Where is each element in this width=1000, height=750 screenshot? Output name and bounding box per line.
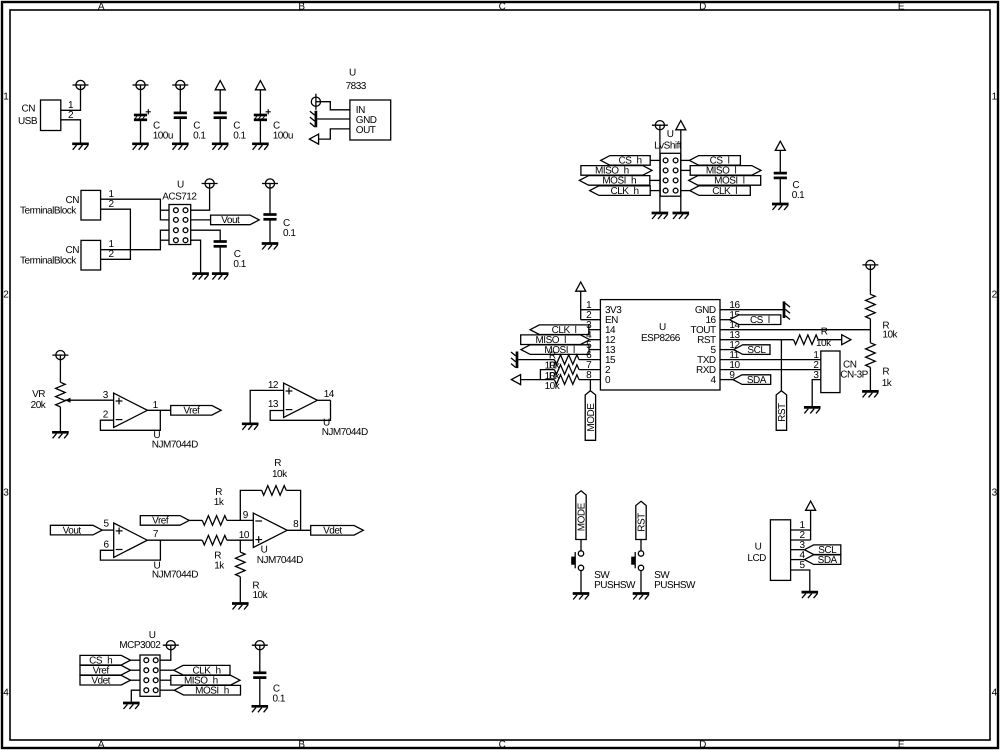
svg-text:PUSHSW: PUSHSW (654, 580, 696, 591)
svg-text:100u: 100u (153, 131, 173, 142)
wire CLK_l to ESP8266 (589, 329, 601, 331)
svg-text:CN-3P: CN-3P (840, 369, 868, 380)
wire RST label to switch (640, 540, 642, 551)
wire R 1k to op-amp c pin10 (227, 539, 253, 541)
wire +5V to MCP3002 bypass cap (259, 650, 261, 673)
switch SW PUSHSW (RST) (631, 551, 696, 591)
wire MISO_l to ESP8266 (590, 339, 601, 341)
wire LvShift to CLK_l (681, 190, 690, 192)
wire R 10k to ground (239, 577, 241, 604)
wire RST switch to ground (640, 571, 642, 594)
ground below LCD (802, 592, 819, 598)
svg-text:SDA: SDA (818, 555, 838, 566)
svg-text:C: C (153, 120, 160, 131)
wire MCP3002 DIN pin (160, 689, 174, 691)
ground below C 100u (second) (252, 144, 269, 150)
net label Vref to MCP3002 (80, 665, 131, 676)
resistor R 10k feedback (262, 458, 288, 495)
svg-text:CS_l: CS_l (750, 315, 770, 326)
wire R 10k to ESP8266 GPIO0 (579, 379, 600, 381)
power symbol +3V3 above LCD (806, 501, 816, 510)
svg-text:MODE: MODE (586, 403, 597, 432)
svg-text:SDA: SDA (747, 375, 767, 386)
wire op-amp b output to R 1k (147, 539, 202, 541)
wire op-amp a output to Vref label (147, 409, 170, 411)
wire +3V3 to ESP8266 pins 1 and 2 (581, 291, 601, 320)
svg-text:10k: 10k (272, 469, 288, 480)
potentiometer VR 20k (31, 382, 71, 411)
op-amp U NJM7044D unit d (268, 380, 368, 438)
wire ACS712 OUT to Vout label (191, 219, 211, 221)
svg-text:R: R (882, 367, 889, 378)
resistor R 10k divider upper (866, 294, 899, 340)
svg-text:NJM7044D: NJM7044D (152, 570, 198, 581)
svg-text:RST: RST (777, 403, 788, 422)
resistor R 1k divider lower (866, 343, 893, 389)
svg-text:ACS712: ACS712 (162, 191, 197, 202)
capacitor C 0.1 at ACS712 FILTER (214, 242, 247, 271)
wire +5V down LvShift left side to ground (659, 130, 661, 213)
wire Vref label to R 1k (189, 519, 202, 521)
op-amp U NJM7044D unit a (103, 390, 198, 451)
wire ESP8266 RST to R 10k (720, 339, 794, 341)
resistor R 10k to ground (236, 552, 269, 601)
svg-text:USB: USB (18, 116, 38, 127)
svg-text:VR: VR (32, 389, 45, 400)
svg-text:SCL: SCL (747, 345, 766, 356)
svg-text:E: E (898, 740, 905, 750)
svg-text:Vdet: Vdet (91, 675, 110, 686)
wire MOSI_h to LvShift (650, 179, 660, 181)
wire C 100u to ground (second) (259, 120, 261, 144)
connector CN CN-3P (813, 350, 868, 393)
wire Vout label to op-amp b pin5 (102, 529, 114, 531)
svg-text:CLK_h: CLK_h (611, 186, 639, 197)
svg-text:CN: CN (66, 195, 80, 206)
wire +5V to VR 20k (59, 360, 61, 383)
wire MODE switch to ground (580, 571, 582, 594)
wire MCP3002 VDD to +5V (160, 650, 171, 660)
wire +3V3 to pullup resistors (521, 370, 555, 380)
ground below MCP3002 bypass cap (252, 706, 269, 712)
wire ESP8266 GPIO16 to CS_l (720, 319, 730, 321)
svg-text:C: C (499, 1, 506, 12)
ground below MODE switch (573, 594, 590, 600)
power symbol +3V3 above ESP8266 (576, 282, 586, 291)
svg-text:CN: CN (66, 245, 80, 256)
wire LvShift bypass cap to ground (779, 178, 781, 204)
svg-text:LvShift: LvShift (654, 141, 682, 152)
wire op-amp c output to Vdet label (287, 529, 311, 531)
ground below CN USB (72, 144, 89, 150)
ground below divider (862, 391, 879, 397)
power symbol +5V above CN USB (73, 80, 89, 89)
svg-text:Vdet: Vdet (323, 526, 342, 537)
svg-text:R: R (274, 458, 281, 469)
svg-text:Vref: Vref (183, 406, 200, 417)
svg-text:100u: 100u (273, 131, 293, 142)
wire ACS712 GND pin to ground (191, 240, 201, 273)
wire MODE label to switch (580, 540, 582, 551)
svg-text:MOSI_h: MOSI_h (195, 685, 229, 696)
wire R 1k to ground (869, 367, 871, 391)
switch SW PUSHSW (MODE) (571, 551, 636, 591)
wire +5V to bypass cap (269, 188, 271, 214)
net label Vout (output) (211, 215, 260, 226)
resistor R 10k GPIO15 pulldown (545, 351, 579, 372)
svg-text:U: U (349, 67, 356, 78)
wire ESP8266 GPIO0 to MODE label (589, 380, 591, 391)
power symbol +3V3 at reset pullup (842, 335, 851, 345)
ground below VR 20k (52, 432, 69, 438)
wire +5V to C 0.1 (179, 90, 181, 113)
svg-text:0.1: 0.1 (283, 228, 296, 239)
svg-text:12: 12 (268, 380, 279, 391)
wire LvShift to CS_l (681, 159, 690, 161)
net label Vout (input) (50, 525, 102, 536)
wire LCD pin3 to SCL (791, 549, 805, 551)
ground below C 0.1 (first) (172, 144, 189, 150)
power symbol +5V at MCP3002 (163, 641, 179, 650)
wire VR wiper to op-amp pin3 (65, 399, 114, 401)
svg-text:E: E (898, 1, 905, 12)
ground at ESP8266 GND pin (784, 301, 790, 319)
capacitor C 0.1 (second) (214, 113, 247, 141)
power symbol +5V at 7833 IN (311, 94, 320, 110)
svg-text:PUSHSW: PUSHSW (594, 580, 636, 591)
net label Vdet (output) (311, 526, 364, 537)
wire ESP8266 GPIO5 to SCL (720, 349, 734, 351)
ground at op-amp d pin12 (242, 424, 259, 430)
net label Vdet to MCP3002 (80, 675, 131, 686)
capacitor C 0.1 (first) (174, 113, 207, 141)
ground below ACS712 GND (192, 274, 209, 280)
power symbol +3V3 above C 100u (second) (255, 81, 265, 90)
svg-text:NJM7044D: NJM7044D (257, 555, 303, 566)
ground below LvShift right (673, 213, 690, 219)
svg-text:CLK_l: CLK_l (712, 186, 737, 197)
wire TerminalBlock1 pin2 to TerminalBlock2 pin2 (101, 209, 130, 259)
ground below C 100u (132, 144, 149, 150)
svg-text:CN: CN (22, 104, 36, 115)
wire ESP8266 GPIO4 to SDA (720, 379, 733, 381)
wire R 10k to ESP8266 GPIO2 (579, 369, 600, 371)
wire bypass cap to ground (269, 219, 271, 243)
capacitor C 0.1 bypass at ACS712 (263, 215, 296, 240)
ground at 7833 GND pin (310, 111, 316, 128)
svg-text:A: A (98, 1, 105, 12)
wire CS_h to LvShift (650, 159, 660, 161)
net label CLK_l at LvShift (690, 186, 751, 197)
svg-text:TerminalBlock: TerminalBlock (20, 206, 77, 217)
net label CLK_h at LvShift (590, 186, 651, 197)
wire C 100u to ground (140, 120, 142, 144)
wire MCP3002 GND to ground (131, 690, 140, 703)
wire MCP3002 CLK pin (160, 669, 174, 671)
svg-text:7833: 7833 (346, 81, 367, 92)
wire +3V3 to C 100u (259, 90, 261, 115)
svg-text:TerminalBlock: TerminalBlock (20, 256, 77, 267)
svg-text:C: C (499, 740, 506, 750)
wire +3V3 down LvShift right side to ground (680, 130, 682, 213)
wire Vdet to MCP3002 (131, 679, 141, 681)
svg-text:10k: 10k (253, 590, 269, 601)
svg-text:D: D (699, 1, 706, 12)
levelshifter U LvShift module (654, 129, 682, 196)
power symbol +5V above VR 20k (52, 351, 68, 360)
net label MISO_h at LvShift (581, 166, 652, 177)
power symbol +5V above MCP3002 bypass cap (252, 641, 268, 650)
wire pin10 node down to R 10k (239, 540, 241, 552)
wire C 0.1 to ground at ACS712 (219, 246, 221, 273)
ground below LvShift bypass cap (772, 204, 789, 210)
wire op-amp a feedback pin2 to output (100, 410, 160, 430)
svg-text:10k: 10k (545, 381, 561, 392)
svg-text:MCP3002: MCP3002 (119, 640, 161, 651)
power symbol +3V3 above LvShift (676, 121, 686, 130)
power symbol +3V3 at 7833 OUT (309, 134, 318, 144)
wire RST node down to RST label (780, 340, 782, 391)
svg-text:0.1: 0.1 (193, 130, 206, 141)
net label SCL at ESP8266 (734, 345, 770, 356)
wire 7833 OUT pin to +3V3 (319, 129, 350, 139)
ground below ACS712 bypass cap (262, 244, 279, 250)
wire C 0.1 to ground (179, 118, 181, 144)
net label MOSI_h from MCP3002 (174, 685, 240, 696)
svg-text:1k: 1k (214, 497, 225, 508)
svg-text:Vref: Vref (152, 516, 169, 527)
svg-text:ESP8266: ESP8266 (641, 333, 681, 344)
wire MCP3002 bypass cap to ground (259, 678, 261, 707)
resistor R 10k GPIO0 pullup (545, 371, 579, 392)
ground below R 10k (232, 604, 249, 610)
op-amp U NJM7044D unit c (239, 510, 303, 566)
net label MOSI_l at LvShift (689, 176, 761, 187)
net label CS_h to MCP3002 (80, 655, 131, 666)
power symbol +3V3 at GPIO2/GPIO0 pullups (511, 375, 520, 385)
power symbol +3V3 above LvShift bypass cap (775, 141, 785, 150)
wire LCD pin4 to SDA (791, 559, 805, 561)
power symbol +5V above LvShift (652, 121, 668, 130)
net label MODE at ESP8266 (585, 391, 597, 441)
capacitor C 100u electrolytic (134, 109, 173, 142)
svg-text:A: A (98, 740, 105, 750)
net label MISO_l to ESP8266 GPIO12 (521, 335, 590, 346)
net label MISO_l at LvShift (690, 166, 761, 177)
svg-text:U: U (177, 180, 184, 191)
wire ESP8266 GND pin to ground (720, 309, 784, 311)
wire +3V3 to C 0.1 (219, 90, 221, 113)
power symbol +5V above ACS712 bypass cap (262, 179, 278, 188)
wire ESP8266 TOUT to divider (720, 329, 870, 331)
svg-text:U: U (659, 322, 666, 333)
net label MISO_h from MCP3002 (171, 675, 240, 686)
op-amp U NJM7044D unit b (103, 518, 198, 580)
svg-text:0.1: 0.1 (233, 130, 246, 141)
resistor R 1k (inverting input) (202, 487, 227, 525)
wire ESP8266 TXD to CN-3P pin1 (720, 359, 821, 361)
net label SDA at ESP8266 (733, 375, 771, 386)
ground below MCP3002 (123, 703, 140, 709)
net label CLK_l to ESP8266 GPIO14 (530, 325, 589, 336)
wire ESP8266 RXD to CN-3P pin2 (720, 369, 821, 371)
svg-text:NJM7044D: NJM7044D (152, 440, 198, 451)
power symbol +5V above divider (862, 260, 878, 269)
wire +3V3 to LCD pins 1 and 2 (791, 510, 811, 540)
wire ground to 7833 GND pin (317, 118, 350, 120)
net label MOSI_h at LvShift (579, 176, 649, 187)
svg-text:10: 10 (239, 530, 250, 541)
svg-text:MODE: MODE (577, 502, 588, 531)
capacitor C 0.1 at MCP3002 (253, 673, 286, 705)
svg-text:13: 13 (268, 399, 279, 410)
wire pin9 node up to feedback R 10k (240, 490, 261, 520)
wire divider node (869, 319, 871, 343)
svg-text:14: 14 (324, 389, 335, 400)
net label CS_l at ESP8266 (730, 315, 781, 326)
net label SCL at LCD (804, 545, 840, 556)
wire CN USB pin2 to ground (61, 120, 81, 144)
svg-text:0.1: 0.1 (792, 190, 805, 201)
wire ACS712 VCC to +5V (191, 188, 210, 210)
wire +3V3 to LvShift bypass cap (779, 150, 781, 173)
power symbol +5V above C 0.1 (first) (172, 80, 188, 89)
wire +5V to C 100u (140, 90, 142, 115)
wire CLK_h to LvShift (650, 190, 660, 192)
wire LvShift to MISO_l (681, 169, 690, 171)
svg-text:U: U (755, 541, 762, 552)
net label MOSI_l to ESP8266 GPIO13 (521, 345, 589, 356)
wire feedback R 10k to output node (286, 490, 300, 530)
svg-text:B: B (298, 1, 305, 12)
svg-text:U: U (667, 129, 674, 140)
net label Vref (output) (171, 406, 221, 417)
wire VR 20k to ground (59, 407, 61, 432)
svg-text:Vout: Vout (221, 215, 240, 226)
power symbol +5V above ACS712 (202, 179, 218, 188)
power symbol +3V3 above C 0.1 (second) (215, 81, 225, 90)
ground below CN-3P (804, 407, 821, 413)
wire CN USB pin1 to +5V (61, 90, 81, 111)
ground at GPIO15 pulldown (511, 352, 517, 369)
svg-text:1k: 1k (882, 378, 893, 389)
svg-text:10k: 10k (882, 329, 898, 340)
wire TerminalBlock2 pin1 to ACS712 IP- pins (101, 230, 169, 250)
wire ACS712 FILTER to C 0.1 (191, 230, 221, 241)
svg-text:D: D (699, 740, 706, 750)
svg-text:Vout: Vout (63, 525, 82, 536)
connector CN TerminalBlock (upper) (20, 189, 114, 220)
svg-text:R: R (821, 327, 828, 338)
wire R 1k to op-amp c pin9 (227, 519, 253, 521)
wire ground to R 10k GPIO15 (518, 359, 554, 361)
net label CS_l at LvShift (689, 156, 740, 167)
resistor R 10k reset pullup (794, 327, 833, 349)
ground below ACS712 filter cap (212, 274, 229, 280)
ESP8266 left pin numbers 1-8 (586, 300, 592, 381)
svg-text:C: C (273, 120, 280, 131)
net label Vref (input) (140, 516, 189, 527)
resistor R 1k (non-inverting input) (202, 535, 227, 571)
wire op-amp d output (317, 399, 330, 401)
net label CLK_h from MCP3002 (174, 665, 230, 676)
wire op-amp d feedback pin13 to output (270, 400, 330, 420)
wire op-amp b feedback pin6 to output (100, 540, 160, 560)
svg-text:0.1: 0.1 (233, 259, 246, 270)
regulator U 7833 (346, 67, 391, 140)
net label RST at switch (636, 501, 648, 539)
wire +5V to R 10k divider (869, 270, 871, 295)
svg-text:RST: RST (637, 513, 648, 532)
svg-text:B: B (298, 740, 305, 750)
wire op-amp d pin12 to ground (250, 390, 283, 423)
wire MOSI_l to ESP8266 (589, 349, 600, 351)
connector CN TerminalBlock (lower) (20, 239, 114, 270)
wire C 0.1 to ground (second) (219, 118, 221, 144)
connector CN USB (18, 100, 74, 131)
display U LCD (747, 520, 805, 581)
wire R 10k to ESP8266 GPIO15 (579, 359, 600, 361)
mcu U ESP8266 module (600, 300, 740, 390)
capacitor C 100u electrolytic (second) (254, 109, 293, 142)
ground below RST switch (633, 594, 650, 600)
svg-text:0.1: 0.1 (273, 694, 286, 705)
svg-text:NJM7044D: NJM7044D (322, 427, 368, 438)
svg-text:1k: 1k (214, 560, 225, 571)
wire MCP3002 DOUT pin (160, 679, 171, 681)
wire Vref to MCP3002 (131, 669, 141, 671)
svg-text:20k: 20k (31, 400, 47, 411)
wire R 10k to +3V3 (818, 339, 842, 341)
power symbol +5V above C 100u (133, 80, 149, 89)
wire LCD pin5 to ground (791, 570, 810, 592)
ground below C 0.1 (second) (212, 144, 229, 150)
wire +5V to 7833 IN pin (321, 102, 350, 110)
svg-text:OUT: OUT (356, 125, 376, 136)
ground below LvShift left (652, 213, 669, 219)
svg-text:LCD: LCD (747, 553, 766, 564)
adc U MCP3002 module (119, 630, 161, 696)
sensor U ACS712 module (162, 180, 197, 245)
wire CS_h to MCP3002 (131, 659, 141, 661)
resistor R 10k GPIO2 pullup (545, 361, 579, 382)
net label SDA at LCD (804, 555, 840, 566)
net label CS_h at LvShift (601, 156, 651, 167)
net label MODE at switch (576, 491, 588, 540)
wire CN-3P pin3 to ground (812, 380, 821, 408)
capacitor C 0.1 at LvShift (774, 173, 805, 201)
wire TerminalBlock1 pin1 to ACS712 IP+ pins (101, 199, 169, 220)
net label RST at ESP8266 (776, 391, 788, 431)
